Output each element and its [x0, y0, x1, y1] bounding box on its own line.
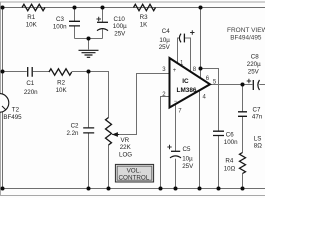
svg-text:VOL.: VOL.: [127, 167, 142, 174]
svg-text:VR: VR: [121, 137, 130, 144]
svg-text:10K: 10K: [26, 21, 38, 28]
wire C4 right to pin8: [184, 38, 190, 72]
capacitor C8: [252, 80, 254, 90]
node C2 bottom: [87, 187, 91, 191]
svg-text:2.2n: 2.2n: [66, 130, 79, 137]
wire pin4 down: [199, 89, 201, 189]
svg-text:BF494/495: BF494/495: [230, 34, 262, 41]
node C6 bottom: [217, 187, 221, 191]
svg-text:25V: 25V: [114, 30, 126, 37]
transistor T2: [0, 94, 9, 113]
svg-text:10µ: 10µ: [159, 37, 170, 44]
svg-text:C1: C1: [26, 80, 34, 87]
svg-text:47n: 47n: [252, 114, 263, 121]
svg-text:C4: C4: [162, 28, 170, 35]
wire output pin5: [210, 84, 265, 86]
wire input line C1-R2-VR: [3, 72, 109, 118]
resistor R2: [49, 69, 72, 75]
node C10 top: [101, 6, 105, 10]
capacitor C7: [238, 112, 247, 117]
capacitor C3: [69, 21, 80, 26]
wire pin7 to C5: [175, 104, 177, 189]
svg-text:BF495: BF495: [3, 114, 22, 121]
svg-text:10Ω: 10Ω: [224, 166, 236, 173]
svg-text:22K: 22K: [120, 144, 132, 151]
node bottom-left: [1, 187, 5, 191]
capacitor C2: [83, 128, 94, 133]
capacitor C10: [97, 21, 108, 23]
svg-text:100µ: 100µ: [113, 23, 127, 30]
potentiometer VR 22K: [106, 118, 112, 145]
svg-text:220µ: 220µ: [247, 61, 261, 68]
svg-text:25V: 25V: [182, 163, 194, 170]
svg-text:8Ω: 8Ω: [254, 143, 262, 150]
node pin4 bottom: [198, 187, 202, 191]
node input left: [1, 70, 5, 74]
svg-text:T2: T2: [12, 106, 20, 113]
node C5 bottom: [174, 187, 178, 191]
wire C7 R4 branch: [242, 85, 244, 189]
svg-text:CONTROL: CONTROL: [119, 174, 150, 181]
wire pin1 up to C4: [178, 38, 180, 63]
node pin6 branch: [199, 67, 203, 71]
svg-text:25V: 25V: [248, 68, 260, 75]
node Vcc top: [199, 6, 203, 10]
node R4 bottom: [241, 187, 245, 191]
wire C10 stems: [102, 8, 104, 39]
wire bottom ground rail: [3, 188, 266, 190]
svg-text:1K: 1K: [140, 22, 148, 29]
svg-text:220n: 220n: [24, 89, 38, 96]
node ground junction: [87, 37, 91, 41]
svg-text:−: −: [174, 99, 178, 105]
node VR bottom: [107, 187, 111, 191]
capacitor C5: [171, 150, 180, 152]
svg-text:10µ: 10µ: [182, 155, 193, 162]
node output: [241, 83, 245, 87]
svg-text:10K: 10K: [56, 87, 68, 94]
resistor R3: [134, 4, 156, 10]
wire Vcc down pin6: [200, 8, 202, 79]
svg-text:IC: IC: [182, 78, 189, 85]
vol control box: [115, 164, 153, 182]
svg-text:R2: R2: [57, 80, 65, 87]
ground: [79, 50, 99, 57]
node C2 top: [87, 70, 91, 74]
svg-text:100n: 100n: [224, 139, 238, 146]
svg-text:FRONT VIEW: FRONT VIEW: [227, 27, 265, 34]
op-amp U1 LM386: [170, 58, 211, 108]
svg-text:+: +: [173, 68, 177, 74]
node pin2 bottom: [159, 187, 163, 191]
wire left rail: [2, 8, 4, 189]
capacitor C6: [213, 131, 224, 135]
wire C2 branch: [88, 72, 90, 189]
svg-text:LS: LS: [254, 135, 262, 142]
svg-text:LM386: LM386: [177, 87, 197, 94]
wire pin2 to ground: [161, 97, 170, 189]
wire wiper to pin3: [116, 74, 170, 135]
svg-text:R4: R4: [225, 158, 233, 165]
wire C3 stems: [74, 8, 76, 39]
svg-text:R1: R1: [27, 14, 35, 21]
svg-text:C8: C8: [251, 53, 259, 60]
svg-text:C6: C6: [226, 132, 234, 139]
svg-text:C2: C2: [71, 123, 79, 130]
svg-text:25V: 25V: [159, 44, 171, 51]
svg-text:C3: C3: [56, 16, 64, 23]
resistor R4: [240, 153, 246, 174]
wire Vcc branch to C6: [201, 69, 219, 189]
svg-text:C5: C5: [183, 146, 191, 153]
wire C3-C10 bottom joining: [75, 38, 103, 40]
svg-text:R3: R3: [140, 14, 148, 21]
node C3 top: [73, 6, 77, 10]
wire ground stem: [88, 39, 90, 50]
wire top supply rail: [3, 7, 266, 9]
svg-text:100n: 100n: [53, 23, 67, 30]
wire VR lower stem: [108, 145, 110, 189]
svg-text:C10: C10: [114, 16, 126, 23]
capacitor C1: [28, 67, 33, 77]
node top-left: [1, 6, 5, 10]
resistor R1: [22, 4, 45, 10]
svg-text:LOG: LOG: [119, 152, 132, 159]
svg-text:C7: C7: [253, 107, 261, 114]
capacitor C4: [179, 34, 181, 43]
